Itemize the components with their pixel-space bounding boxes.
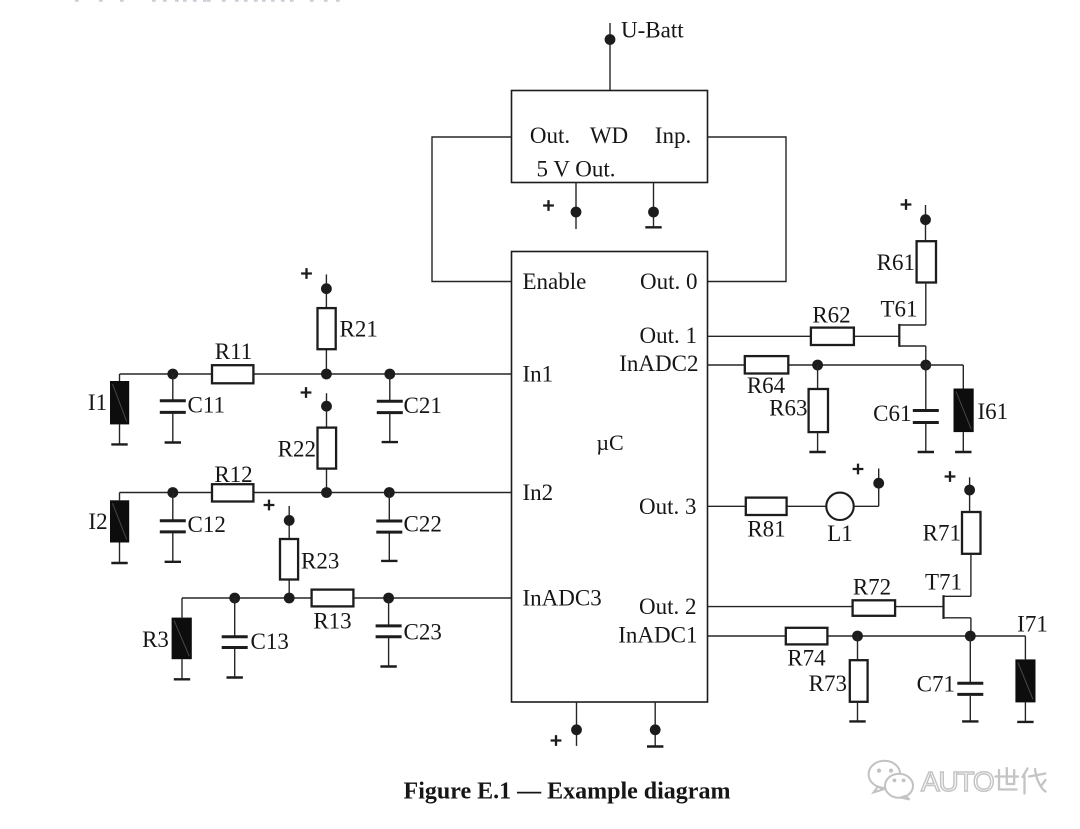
svg-text:L1: L1 (827, 521, 853, 546)
wire R3 bottom lead (181, 659, 183, 679)
node WD ground dot (648, 207, 659, 218)
svg-text:R64: R64 (747, 373, 786, 398)
wire L1 to supply (854, 469, 879, 507)
svg-text:C13: C13 (251, 629, 289, 654)
ground WD (645, 226, 661, 228)
pin label Inp. (655, 123, 691, 148)
wire C22 bottom lead (388, 534, 390, 561)
plus sign R61 supply (901, 199, 912, 210)
node R22 foot junction (321, 487, 332, 498)
node C13 junction (229, 593, 240, 604)
ground R63 (809, 451, 825, 453)
svg-text:C23: C23 (404, 620, 442, 645)
ground I1 (111, 443, 127, 445)
wire R23 branch (288, 506, 290, 598)
svg-text:InADC3: InADC3 (523, 586, 602, 611)
label R21 (340, 317, 378, 342)
wire WD ground stub (653, 183, 655, 227)
resistor R73 (850, 660, 868, 702)
svg-text:InADC2: InADC2 (619, 351, 698, 376)
pin label InADC2 (619, 351, 698, 376)
resistor R81 (746, 498, 787, 515)
wire C13 bottom lead (234, 649, 236, 677)
input block I71 (1015, 659, 1035, 702)
svg-text:R13: R13 (313, 609, 351, 634)
caption Figure E.1 (404, 779, 731, 805)
node T61 emitter junction (920, 360, 931, 371)
wire C71 bottom lead (969, 696, 971, 721)
plus sign R71 supply (945, 471, 956, 482)
op-amp size microcontroller box uC (512, 252, 708, 703)
pin label InADC3 (523, 586, 602, 611)
label C21 (404, 393, 442, 418)
label C61 (873, 401, 911, 426)
node R23 supply dot (284, 515, 295, 526)
label R3 (142, 627, 169, 652)
wire C12 top lead (172, 493, 174, 521)
wire I61 branch (926, 365, 964, 389)
wire C22 top lead (388, 493, 390, 521)
capacitor C11 (160, 401, 186, 413)
node C23 junction (383, 593, 394, 604)
resistor R72 (853, 600, 896, 616)
svg-text:Out. 3: Out. 3 (639, 494, 697, 519)
node 5V output dot (571, 207, 582, 218)
resistor R71 (962, 512, 981, 554)
label R62 (812, 303, 850, 328)
pin label Out. 2 (639, 594, 697, 619)
svg-text:I2: I2 (88, 509, 107, 534)
ground C11 (165, 441, 181, 443)
label C23 (404, 620, 442, 645)
label R12 (214, 462, 252, 487)
svg-text:R71: R71 (923, 521, 961, 546)
label R64 (747, 373, 786, 398)
wire I61 bottom lead (962, 432, 964, 451)
pin label InADC1 (618, 623, 697, 648)
wire I1 bottom lead (119, 424, 121, 444)
wire C11 top lead (172, 374, 174, 400)
label I2 (88, 509, 107, 534)
wire R61 branch (925, 205, 927, 241)
input block I2 (110, 500, 129, 542)
svg-text:R11: R11 (215, 339, 253, 364)
wire C11 bottom lead (172, 413, 174, 442)
wire R21 branch (325, 274, 327, 374)
label R61 (877, 250, 915, 275)
wire WD Inp. to Out. 0 (right loop) (708, 137, 787, 282)
wire R73 bottom lead (857, 702, 859, 721)
wire InADC2 row (708, 364, 926, 366)
transistor T61 (899, 283, 926, 366)
svg-text:U-Batt: U-Batt (621, 18, 684, 43)
svg-text:C61: C61 (873, 401, 911, 426)
wire I2 bottom lead (119, 543, 121, 563)
resistor R61 (917, 241, 936, 282)
label R71 (923, 521, 961, 546)
label I61 (978, 399, 1009, 424)
pin label Out. 1 (640, 323, 698, 348)
ground C23 (380, 665, 396, 667)
svg-text:R74: R74 (787, 646, 826, 671)
resistor R62 (811, 328, 854, 345)
node L1 supply dot (873, 478, 884, 489)
label C11 (188, 393, 226, 418)
resistor R64 (745, 356, 789, 373)
svg-text:5 V Out.: 5 V Out. (536, 157, 615, 182)
input block I61 (954, 389, 974, 433)
wire uC supply stub (576, 702, 578, 746)
ground uC (647, 745, 663, 747)
ground R3 (174, 678, 190, 680)
resistor R11 (212, 365, 253, 383)
label C71 (917, 672, 955, 697)
wire U-Batt stub (609, 23, 611, 91)
svg-text:I61: I61 (978, 399, 1009, 424)
capacitor C13 (222, 637, 248, 648)
capacitor C71 (957, 683, 983, 694)
node R21 supply dot (321, 283, 332, 294)
wire 5V output stub (575, 183, 577, 230)
node C22 junction (384, 487, 395, 498)
plus sign L1 supply (853, 464, 864, 475)
ground C22 (381, 560, 397, 562)
wire In1 row (120, 373, 512, 375)
pin label 5 V Out. (536, 157, 615, 182)
svg-text:Out. 2: Out. 2 (639, 594, 697, 619)
resistor R22 (318, 428, 337, 469)
node T71 emitter junction (965, 631, 976, 642)
label R13 (313, 609, 351, 634)
node R71 supply dot (964, 485, 975, 496)
svg-text:Enable: Enable (523, 269, 587, 294)
resistor R23 (280, 539, 298, 580)
resistor R74 (786, 628, 828, 645)
label R81 (747, 517, 785, 542)
node U-Batt dot (605, 34, 616, 45)
wire R63 bottom lead (817, 432, 819, 451)
svg-text:In1: In1 (523, 362, 554, 387)
plus sign R22 supply (301, 387, 312, 398)
pin label WD (590, 123, 628, 148)
resistor R13 (312, 590, 354, 607)
plus sign R21 supply (301, 268, 312, 279)
svg-text:In2: In2 (523, 480, 554, 505)
wire Out. 1 row (708, 335, 900, 337)
capacitor C23 (376, 626, 402, 637)
label R22 (278, 437, 316, 462)
pin label In1 (523, 362, 554, 387)
resistor R12 (212, 484, 253, 501)
svg-text:I71: I71 (1017, 612, 1048, 637)
pin label In2 (523, 480, 554, 505)
plus sign R23 supply (264, 500, 275, 511)
svg-text:T61: T61 (880, 297, 917, 322)
transistor T71 (944, 554, 971, 636)
wire InADC3 row (182, 597, 512, 599)
label L1 (827, 521, 853, 546)
capacitor C61 (913, 411, 939, 423)
ground I2 (111, 562, 127, 564)
svg-text:R22: R22 (278, 437, 316, 462)
node R23 foot junction (284, 593, 295, 604)
wire C21 top lead (389, 374, 391, 401)
svg-text:C12: C12 (188, 512, 226, 537)
node R63 junction (812, 360, 823, 371)
node R73 junction (852, 631, 863, 642)
wire R22 branch (326, 393, 328, 492)
svg-text:Figure E.1 — Example diagram: Figure E.1 — Example diagram (404, 779, 731, 805)
ground C21 (382, 441, 398, 443)
svg-text:R21: R21 (340, 317, 378, 342)
label R11 (215, 339, 253, 364)
svg-text:Out. 1: Out. 1 (640, 323, 698, 348)
svg-text:C71: C71 (917, 672, 955, 697)
label I71 (1017, 612, 1048, 637)
capacitor C21 (377, 401, 403, 412)
wire WD Out. to Enable (left loop) (432, 137, 512, 282)
wire C71 top lead (969, 636, 971, 683)
svg-text:R73: R73 (809, 671, 847, 696)
watermark WeChat logo AUTO (869, 761, 1046, 800)
ground C71 (962, 720, 978, 722)
svg-text:R72: R72 (853, 575, 891, 600)
wire C61 top lead (925, 365, 927, 410)
label T61 (880, 297, 917, 322)
wire R3 top lead (181, 598, 183, 618)
wire InADC1 row (708, 635, 1026, 637)
plus sign 5V output (543, 200, 554, 211)
label T71 (925, 570, 962, 595)
regulator-watchdog box (512, 91, 708, 183)
wire R73 top lead (857, 636, 859, 660)
label R63 (769, 396, 807, 421)
label C12 (188, 512, 226, 537)
label C13 (251, 629, 289, 654)
wire C12 bottom lead (172, 533, 174, 561)
node uC supply dot (571, 724, 582, 735)
label R73 (809, 671, 847, 696)
svg-text:I1: I1 (88, 390, 107, 415)
wire C23 bottom lead (388, 638, 390, 666)
svg-text:Out.: Out. (530, 123, 570, 148)
wire Out. 2 row (708, 606, 944, 608)
svg-text:C11: C11 (188, 393, 226, 418)
plus sign uC supply (551, 735, 562, 746)
node C11 junction (167, 369, 178, 380)
svg-text:WD: WD (590, 123, 628, 148)
wire C21 bottom lead (389, 413, 391, 442)
wire I1 top lead (119, 374, 121, 381)
capacitor C12 (160, 521, 186, 532)
svg-text:C21: C21 (404, 393, 442, 418)
ground C12 (165, 561, 181, 563)
resistor R63 (809, 389, 828, 432)
wire I2 top lead (119, 493, 121, 501)
ground R73 (849, 720, 865, 722)
svg-text:R62: R62 (812, 303, 850, 328)
svg-text:AUTO: AUTO (921, 766, 994, 797)
wire C23 top lead (388, 598, 390, 625)
lamp L1 (826, 493, 853, 520)
wire Out. 3 row (708, 505, 827, 507)
label C22 (404, 512, 442, 537)
wire C13 top lead (234, 598, 236, 636)
svg-text:R12: R12 (214, 462, 252, 487)
node C21 junction (384, 369, 395, 380)
wire In2 row (120, 492, 512, 494)
wire C61 bottom lead (925, 424, 927, 452)
svg-text:R63: R63 (769, 396, 807, 421)
node uC ground dot (650, 724, 661, 735)
capacitor C22 (376, 521, 402, 532)
pin label Enable (523, 269, 587, 294)
label R74 (787, 646, 826, 671)
label uC (596, 430, 623, 455)
node R21 foot junction (321, 369, 332, 380)
ground C13 (227, 676, 243, 678)
resistor R21 (318, 308, 336, 349)
wire R63 top lead (817, 365, 819, 389)
node R22 supply dot (321, 401, 332, 412)
svg-text:Out. 0: Out. 0 (640, 269, 698, 294)
label R23 (301, 549, 339, 574)
cropped text line at top edge (75, 0, 340, 2)
svg-text:InADC1: InADC1 (618, 623, 697, 648)
svg-text:R61: R61 (877, 250, 915, 275)
ground C61 (918, 451, 934, 453)
wire I71 bottom lead (1024, 702, 1026, 721)
node C12 junction (167, 487, 178, 498)
svg-text:C22: C22 (404, 512, 442, 537)
wire uC ground stub (654, 702, 656, 746)
svg-text:µC: µC (596, 430, 623, 455)
svg-text:R81: R81 (747, 517, 785, 542)
label I1 (88, 390, 107, 415)
svg-text:R23: R23 (301, 549, 339, 574)
input block I1 (110, 381, 129, 424)
node R61 supply dot (920, 214, 931, 225)
ground I71 (1017, 721, 1033, 723)
label R72 (853, 575, 891, 600)
ground I61 (955, 451, 971, 453)
pin label Out. (530, 123, 570, 148)
svg-text:Inp.: Inp. (655, 123, 691, 148)
svg-text:T71: T71 (925, 570, 962, 595)
pin label Out. 3 (639, 494, 697, 519)
wire R71 branch (969, 477, 971, 512)
wire I71 top lead (1024, 636, 1026, 659)
pin label Out. 0 (640, 269, 698, 294)
svg-text:R3: R3 (142, 627, 169, 652)
resistor block R3 (172, 618, 192, 660)
label U-Batt (621, 18, 684, 43)
